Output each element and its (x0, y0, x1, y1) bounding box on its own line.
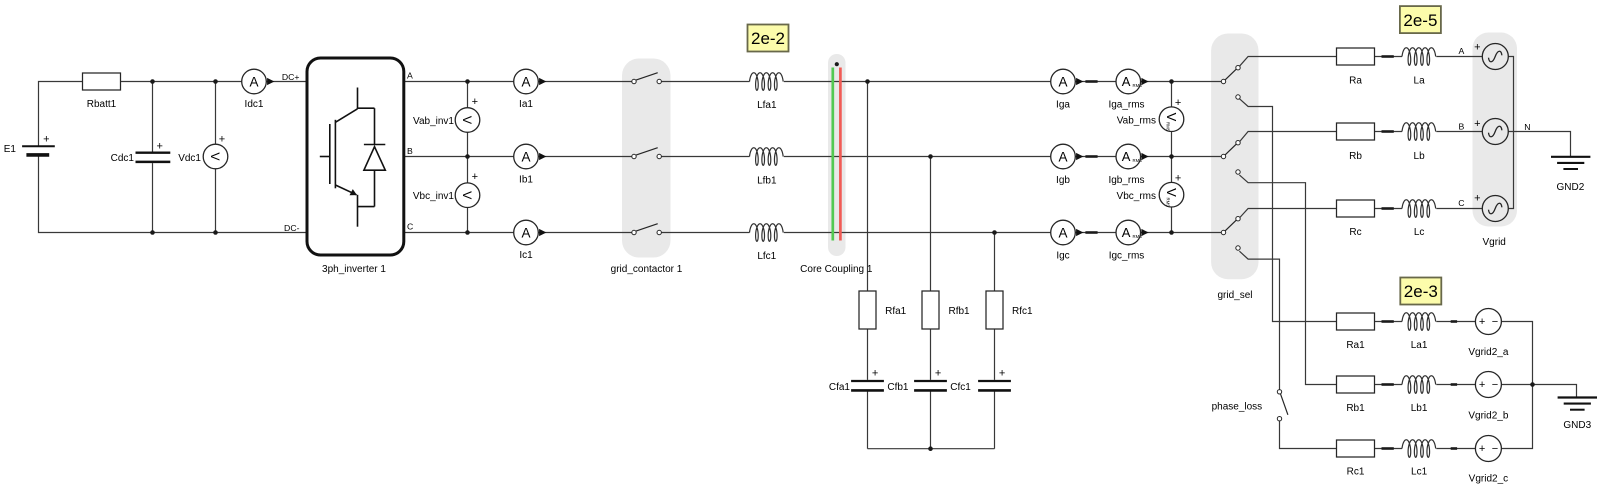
transistor IGBT (inverter icon) (357, 88, 359, 109)
svg-text:La: La (1414, 75, 1426, 86)
capacitor Cfc1 (978, 380, 1011, 382)
svg-text:−: − (1492, 443, 1498, 455)
wire filter branch C upper (994, 233, 996, 380)
resistor Rb1 (1337, 376, 1375, 393)
svg-text:+: + (1474, 118, 1480, 130)
inductor Lb1 (1402, 376, 1436, 394)
inductor Lfc1 (750, 224, 784, 242)
svg-text:Vgrid: Vgrid (1483, 237, 1506, 248)
svg-text:Vbc_inv1: Vbc_inv1 (413, 191, 455, 202)
arrow Ic1 output (539, 229, 546, 236)
junction phase A / Vab_rms (1169, 79, 1174, 84)
resistor Rb (1337, 123, 1375, 140)
svg-text:grid_sel: grid_sel (1217, 290, 1252, 301)
svg-text:+: + (1175, 97, 1181, 109)
inverter block 3ph_inverter 1 outline (307, 58, 404, 255)
svg-text:Lb1: Lb1 (1411, 403, 1428, 414)
svg-text:Core Coupling 1: Core Coupling 1 (800, 264, 873, 275)
voltmeter Vab_inv1 (455, 108, 480, 133)
svg-text:Cfa1: Cfa1 (829, 382, 851, 393)
svg-text:Rfb1: Rfb1 (949, 306, 971, 317)
voltmeter Vdc1 (203, 144, 228, 169)
voltmeter Vab_rms (1159, 107, 1184, 132)
svg-text:+: + (1479, 316, 1485, 328)
ammeter Idc1 (242, 69, 267, 94)
wire phase C: Lfc1 to grid_sel via meters (784, 232, 1222, 234)
ammeter Igb_rms (1116, 144, 1141, 169)
wire Vdc1 branch (215, 82, 217, 233)
resistor Rfc1 (986, 291, 1003, 329)
arrow Igc_rms output (1141, 229, 1148, 236)
wire bold segment Igc-Igc_rms (1085, 231, 1097, 234)
svg-text:B: B (1459, 122, 1465, 132)
voltage source Vgrid2_c (1475, 436, 1501, 462)
ammeter Ia1 (514, 69, 539, 94)
wire bold segment Rb-Lb (1382, 130, 1394, 133)
junction filter common node (928, 446, 933, 451)
junction Vgrid2 neutral (1530, 382, 1535, 387)
svg-text:RMS: RMS (1166, 122, 1171, 132)
junction phase A / Vab_inv1 (465, 79, 470, 84)
wire Cdc1 branch lower (152, 163, 154, 232)
svg-text:RMS: RMS (1133, 158, 1143, 163)
capacitor Cdc1 (136, 152, 171, 154)
resistor Ra1 (1337, 313, 1375, 330)
svg-text:phase_loss: phase_loss (1212, 402, 1263, 413)
Core Coupling 1 green bar (831, 68, 834, 241)
svg-text:Cfc1: Cfc1 (950, 382, 971, 393)
wire bold segment Iga-Iga_rms (1085, 80, 1097, 83)
junction DC+ / Cdc1 (150, 79, 155, 84)
svg-text:Vgrid2_b: Vgrid2_b (1468, 410, 1508, 421)
svg-text:A: A (521, 74, 530, 89)
Vgrid source block background (1473, 33, 1518, 227)
wire phase A: contactor to Lfa1 (662, 81, 750, 83)
wire Lb1 to Vgrid2_b (1436, 384, 1475, 386)
junction DC- / Cdc1 (150, 230, 155, 235)
ammeter Ib1 (514, 144, 539, 169)
ammeter Igb (1051, 144, 1076, 169)
resistor Rfa1 (859, 291, 876, 329)
svg-text:+: + (935, 367, 941, 379)
svg-text:A: A (407, 71, 413, 81)
svg-text:grid_contactor 1: grid_contactor 1 (611, 264, 683, 275)
wire Vgrid neutral bus (1508, 57, 1513, 209)
svg-text:+: + (999, 367, 1005, 379)
voltmeter Vbc_inv1 (455, 183, 480, 208)
svg-text:Rb: Rb (1349, 151, 1362, 162)
arrow Igc output (1076, 229, 1083, 236)
svg-text:+: + (219, 134, 225, 146)
svg-text:3ph_inverter 1: 3ph_inverter 1 (322, 264, 386, 275)
wire bold segment La1-Vgrid2_a (1451, 320, 1457, 323)
svg-text:Vbc_rms: Vbc_rms (1117, 191, 1156, 202)
ammeter Iga_rms (1116, 69, 1141, 94)
arrow Iga_rms output (1141, 78, 1148, 85)
voltage source Vgrid phase A (1482, 44, 1508, 70)
svg-text:N: N (1524, 122, 1530, 132)
wire phase_loss to Rc1 (1280, 421, 1403, 449)
svg-text:+: + (1175, 173, 1181, 185)
wire filter branch A upper (867, 82, 869, 380)
svg-text:A: A (249, 74, 258, 89)
capacitor Cfb1 (914, 380, 947, 382)
svg-text:2e-2: 2e-2 (751, 29, 785, 48)
svg-text:GND2: GND2 (1557, 182, 1585, 193)
voltmeter Vbc_rms (1159, 182, 1184, 207)
svg-text:C: C (1458, 198, 1464, 208)
Core Coupling 1 marker dot (835, 62, 839, 66)
resistor Rc (1337, 200, 1375, 217)
svg-text:Igb_rms: Igb_rms (1108, 175, 1144, 186)
svg-text:A: A (1058, 74, 1067, 89)
inductor Lfb1 (750, 148, 784, 166)
wire filter branch A lower (867, 392, 869, 449)
arrow Idc1 output (267, 78, 274, 85)
wire Lc to Vgrid C (1436, 208, 1482, 210)
wire grid_sel C lower throw to phase_loss (1239, 251, 1279, 389)
svg-text:+: + (43, 133, 49, 145)
svg-text:+: + (472, 171, 478, 183)
svg-text:Lc1: Lc1 (1411, 466, 1428, 477)
wire bold segment Rc1-Lc1 (1382, 447, 1394, 450)
switch grid_contactor phase B (632, 154, 636, 158)
svg-text:+: + (872, 367, 878, 379)
svg-text:Vdc1: Vdc1 (178, 153, 201, 164)
wire bold segment Rc-Lc (1382, 207, 1394, 210)
Core Coupling 1 background pill (828, 54, 846, 256)
svg-text:Igb: Igb (1056, 175, 1070, 186)
svg-text:−: − (1492, 379, 1498, 391)
wire Vab_inv1/Vbc_inv1 measurement branch (467, 82, 469, 233)
wire bold segment Igb-Igb_rms (1085, 155, 1097, 158)
svg-text:Iga: Iga (1056, 100, 1070, 111)
resistor Ra (1337, 48, 1375, 65)
svg-text:2e-3: 2e-3 (1404, 282, 1438, 301)
svg-text:−: − (1492, 316, 1498, 328)
svg-text:V: V (208, 152, 222, 161)
resistor Rfb1 (922, 291, 939, 329)
wire bold segment Rb1-Lb1 (1382, 383, 1394, 386)
wire Vab_rms/Vbc_rms measurement branch (1171, 82, 1173, 233)
svg-text:2e-5: 2e-5 (1403, 11, 1437, 30)
svg-text:Rbatt1: Rbatt1 (87, 99, 117, 110)
svg-text:A: A (1122, 149, 1131, 164)
svg-text:+: + (1474, 193, 1480, 205)
inductor La (1402, 48, 1436, 66)
ammeter Iga (1051, 69, 1076, 94)
wire La1 to Vgrid2_a (1436, 321, 1475, 323)
svg-text:DC-: DC- (284, 223, 300, 233)
diode (inverter icon) (374, 108, 376, 144)
ammeter Igc (1051, 220, 1076, 245)
capacitor Cfa1 (851, 380, 884, 382)
wire grid_sel C upper throw to Rc (1239, 209, 1402, 219)
ammeter Igc_rms (1116, 220, 1141, 245)
svg-text:Rc1: Rc1 (1347, 466, 1365, 477)
ground GND2 (1551, 156, 1590, 158)
svg-text:A: A (1058, 225, 1067, 240)
svg-text:C: C (407, 222, 413, 232)
wire bold segment Lc1-Vgrid2_c (1451, 447, 1457, 450)
junction phase B / Vab_rms-Vbc_rms (1169, 154, 1174, 159)
junction phase A / filter branch (865, 79, 870, 84)
wire Lb to Vgrid B (1436, 131, 1482, 133)
resistor Rbatt1 (83, 73, 121, 90)
svg-text:E1: E1 (4, 144, 17, 155)
wire filter branch C lower (994, 392, 996, 449)
switch grid_sel phase A (1221, 79, 1225, 83)
switch grid_sel phase C (1221, 230, 1225, 234)
svg-text:Iga_rms: Iga_rms (1108, 100, 1144, 111)
svg-text:Lc: Lc (1414, 227, 1425, 238)
value label 2e-5 (1400, 6, 1441, 33)
wire grid_sel A lower throw to Ra1 (1239, 99, 1402, 322)
svg-text:A: A (1459, 46, 1465, 56)
svg-text:Ra1: Ra1 (1346, 340, 1365, 351)
svg-text:Idc1: Idc1 (245, 99, 264, 110)
junction phase B / Vab_inv1-Vbc_inv1 (465, 154, 470, 159)
junction DC+ / Vdc1 (213, 79, 218, 84)
svg-text:V: V (1164, 188, 1179, 197)
inductor Lc (1402, 200, 1436, 218)
wire phase A: inverter to contactor (404, 81, 632, 83)
svg-text:Vab_rms: Vab_rms (1117, 116, 1156, 127)
wire DC+ net: battery top to inverter DC+ (39, 82, 307, 147)
arrow Ia1 output (539, 78, 546, 85)
svg-text:A: A (521, 149, 530, 164)
svg-text:La1: La1 (1411, 340, 1428, 351)
svg-text:V: V (460, 191, 474, 200)
wire phase B: inverter to contactor (404, 156, 632, 158)
voltage source Vgrid phase B (1482, 119, 1508, 145)
ammeter Ic1 (514, 220, 539, 245)
svg-text:V: V (1164, 113, 1179, 122)
ground GND3 (1558, 396, 1597, 398)
svg-text:+: + (1474, 42, 1480, 54)
wire grid_sel A upper throw to Ra (1239, 57, 1402, 67)
svg-text:DC+: DC+ (282, 72, 300, 82)
wire filter branch B lower (930, 392, 932, 449)
svg-text:Lfa1: Lfa1 (757, 100, 777, 111)
wire phase A: Lfa1 to grid_sel via meters (784, 81, 1222, 83)
svg-text:A: A (1122, 74, 1131, 89)
svg-text:+: + (472, 96, 478, 108)
wire filter branch B upper (930, 157, 932, 380)
arrow Igb output (1076, 153, 1083, 160)
arrow Iga output (1076, 78, 1083, 85)
wire phase B: contactor to Lfb1 (662, 156, 750, 158)
svg-text:Lfc1: Lfc1 (757, 251, 776, 262)
wire La to Vgrid A (1436, 56, 1482, 58)
svg-text:Rfc1: Rfc1 (1012, 306, 1033, 317)
svg-text:RMS: RMS (1133, 234, 1143, 239)
svg-text:A: A (1058, 149, 1067, 164)
svg-text:+: + (1479, 443, 1485, 455)
wire DC- net: battery bottom to inverter DC- (39, 154, 307, 233)
svg-text:Vgrid2_a: Vgrid2_a (1468, 347, 1508, 358)
junction phase B / filter branch (928, 154, 933, 159)
value label 2e-2 (748, 25, 789, 52)
inductor Lc1 (1402, 440, 1436, 458)
svg-text:Vgrid2_c: Vgrid2_c (1469, 473, 1508, 484)
svg-text:Vab_inv1: Vab_inv1 (413, 116, 454, 127)
switch grid_contactor phase C (632, 230, 636, 234)
svg-text:Rb1: Rb1 (1346, 403, 1365, 414)
svg-text:Ic1: Ic1 (519, 250, 533, 261)
svg-text:A: A (521, 225, 530, 240)
junction phase C / Vbc_inv1 (465, 230, 470, 235)
wire Vgrid2 neutral to GND3 (1533, 385, 1577, 398)
wire phase C: inverter to contactor (404, 232, 632, 234)
junction phase C / filter branch (992, 230, 997, 235)
arrow Igb_rms output (1141, 153, 1148, 160)
switch grid_sel phase B (1221, 154, 1225, 158)
wire bold segment Ra-La (1382, 55, 1394, 58)
svg-text:Cdc1: Cdc1 (111, 153, 135, 164)
svg-text:Lfb1: Lfb1 (757, 175, 777, 186)
grid_contactor 1 block background (622, 59, 671, 258)
svg-text:RMS: RMS (1133, 83, 1143, 88)
voltage source Vgrid2_a (1475, 309, 1501, 335)
wire filter common node (868, 448, 995, 450)
arrow Ib1 output (539, 153, 546, 160)
battery E1 (22, 145, 55, 147)
svg-text:GND3: GND3 (1563, 420, 1591, 431)
grid_sel block background (1211, 34, 1258, 280)
wire phase C: contactor to Lfc1 (662, 232, 750, 234)
svg-text:RMS: RMS (1166, 198, 1171, 208)
svg-text:V: V (460, 116, 474, 125)
svg-text:Ra: Ra (1349, 75, 1362, 86)
wire grid_sel B upper throw to Rb (1239, 132, 1402, 142)
junction phase C / Vbc_rms (1169, 230, 1174, 235)
svg-text:B: B (407, 146, 413, 156)
svg-text:Rfa1: Rfa1 (885, 306, 907, 317)
inductor Lb (1402, 123, 1436, 141)
voltage source Vgrid2_b (1475, 372, 1501, 398)
wire grid_sel B lower throw to Rb1 (1239, 175, 1402, 385)
svg-text:Lb: Lb (1414, 151, 1426, 162)
inductor La1 (1402, 313, 1436, 331)
junction DC- / Vdc1 (213, 230, 218, 235)
switch grid_contactor phase A (632, 79, 636, 83)
wire bold segment Lb1-Vgrid2_b (1451, 383, 1457, 386)
wire Lc1 to Vgrid2_c (1436, 448, 1475, 450)
wire bold segment Ra1-La1 (1382, 320, 1394, 323)
svg-text:Cfb1: Cfb1 (887, 382, 909, 393)
svg-text:+: + (1479, 379, 1485, 391)
Core Coupling 1 red bar (839, 68, 842, 241)
value label 2e-3 (1400, 278, 1441, 305)
resistor Rc1 (1337, 440, 1375, 457)
svg-text:Rc: Rc (1349, 227, 1361, 238)
wire phase B: Lfb1 to grid_sel via meters (784, 156, 1222, 158)
svg-text:Igc_rms: Igc_rms (1109, 251, 1145, 262)
svg-text:Ib1: Ib1 (519, 174, 533, 185)
svg-text:+: + (156, 140, 162, 152)
svg-text:Ia1: Ia1 (519, 99, 533, 110)
wire node N to GND2 (1514, 132, 1571, 157)
wire Vgrid2 neutral bus (1501, 322, 1532, 449)
wire Cdc1 branch upper (152, 82, 154, 152)
voltage source Vgrid phase C (1482, 196, 1508, 222)
switch phase_loss (1277, 390, 1281, 394)
inductor Lfa1 (750, 73, 784, 91)
svg-text:A: A (1122, 225, 1131, 240)
svg-text:Igc: Igc (1056, 251, 1069, 262)
